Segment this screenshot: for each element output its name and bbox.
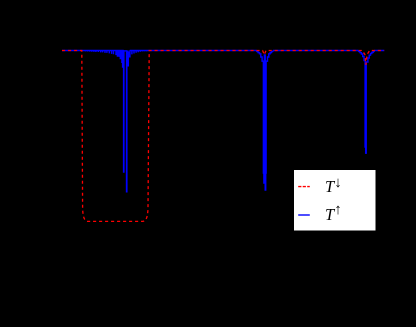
legend key T-up (blue solid sample) (298, 214, 310, 216)
curve T-down (red dashed) (62, 51, 384, 222)
legend label T-up (325, 207, 334, 224)
legend label T-down (325, 179, 334, 196)
curve T-up comb teeth (blue ticks in well) (86, 51, 147, 68)
curve T-up (blue solid) (62, 51, 384, 192)
legend key T-down (red dashed sample) (298, 186, 310, 188)
legend box (294, 170, 376, 231)
